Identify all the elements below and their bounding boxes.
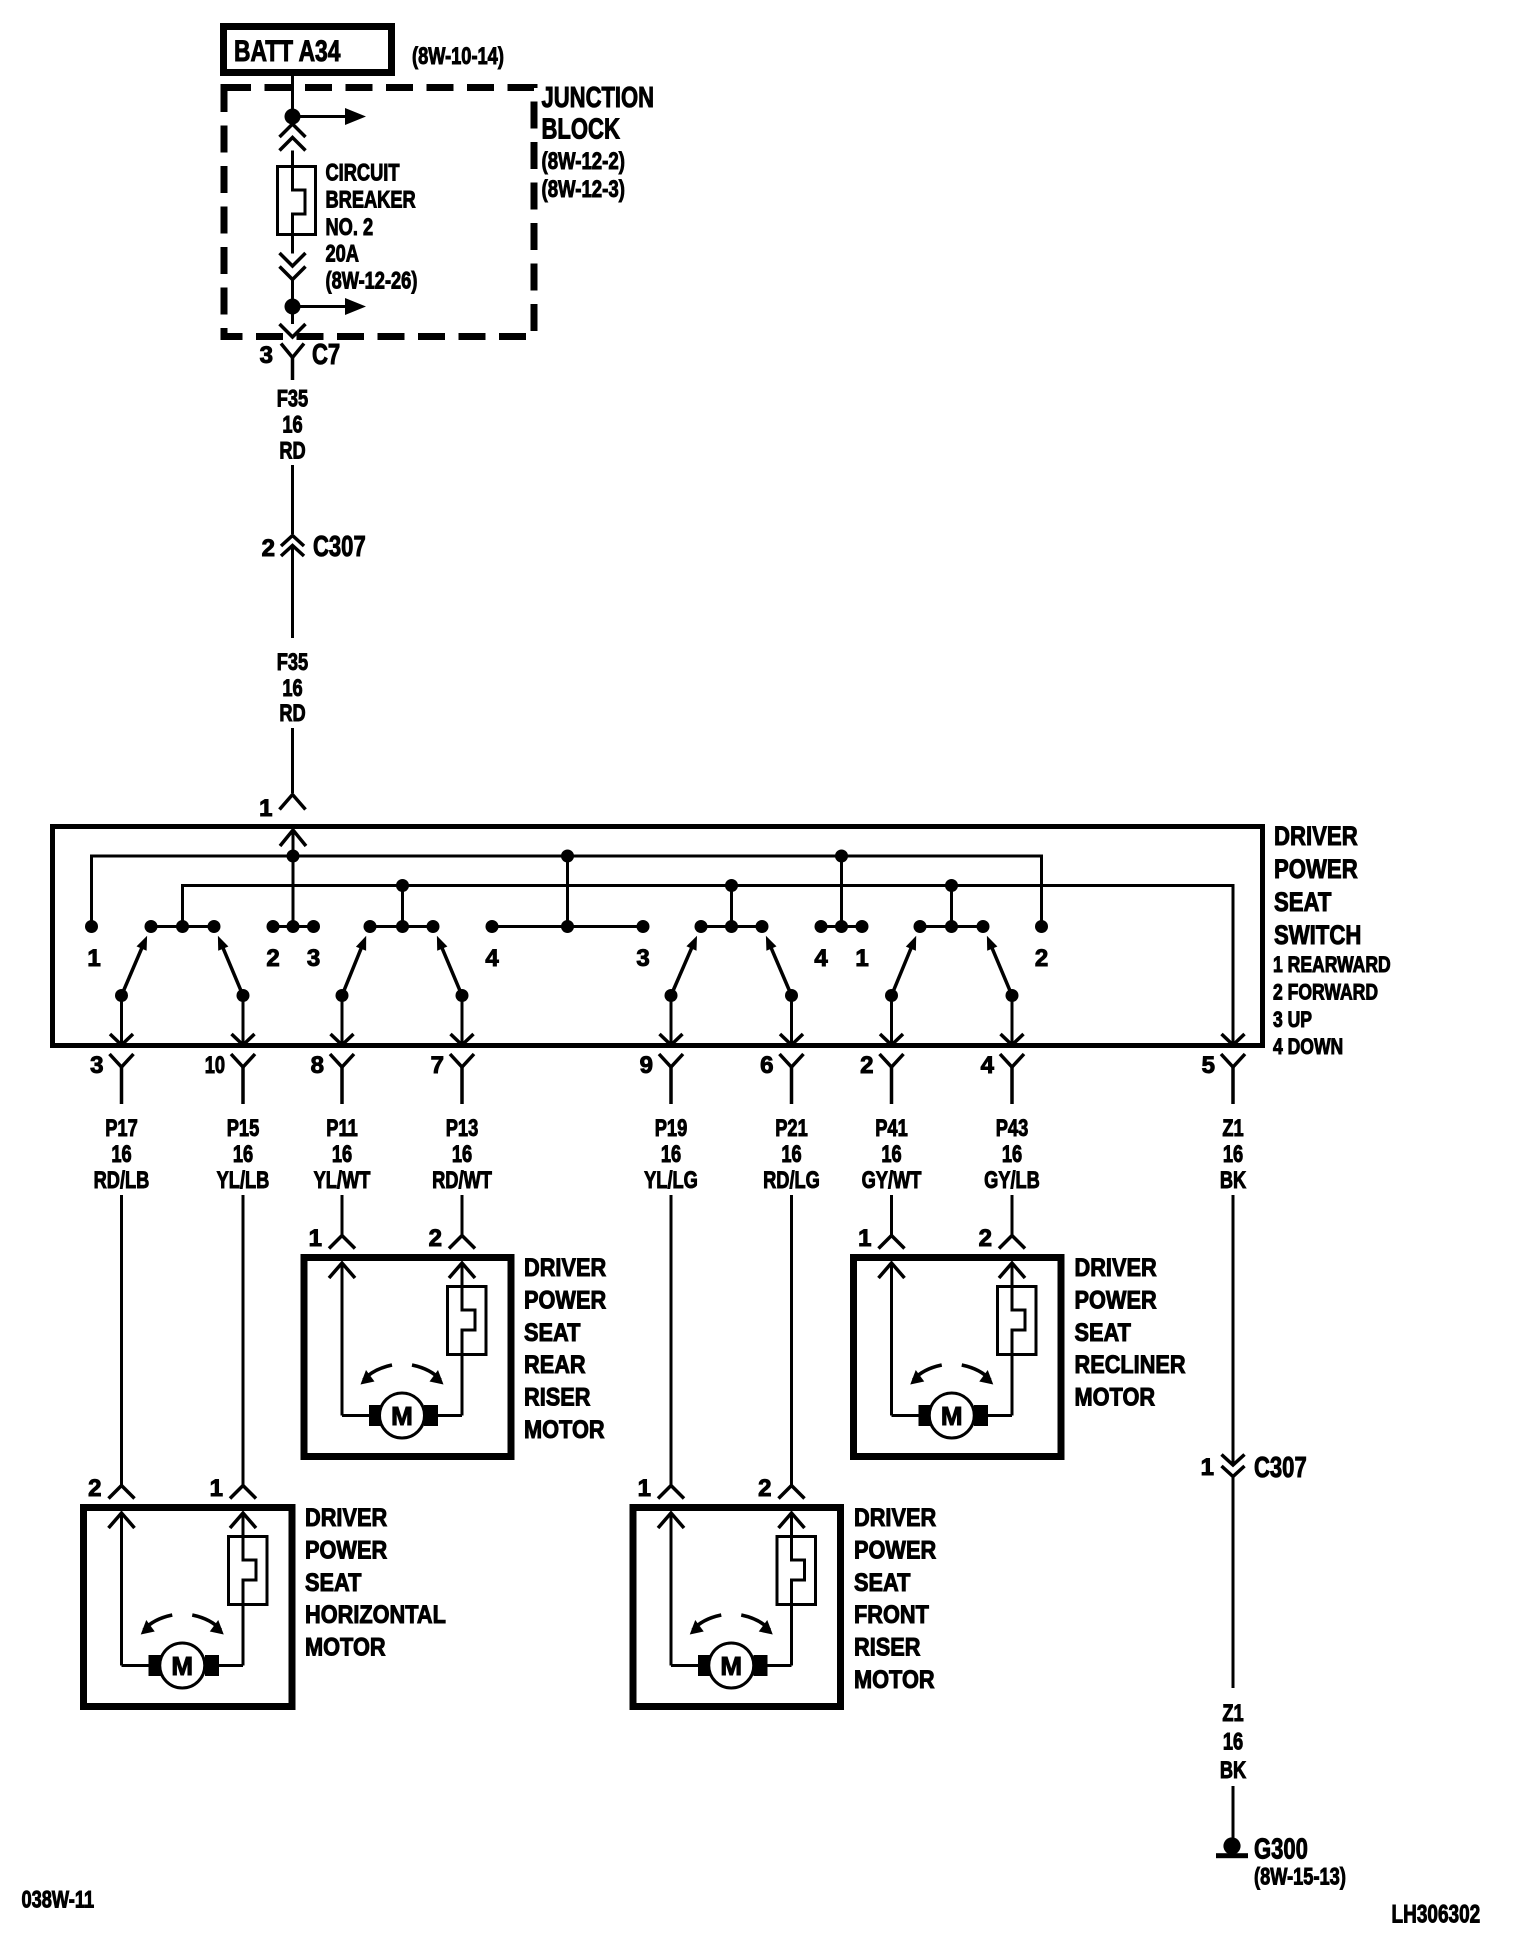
driver power seat front riser motor box: [633, 1508, 841, 1707]
bus common (ground bus to pin 5): [183, 886, 1234, 1047]
label wire P19 16 YL/LG: [644, 1115, 698, 1194]
wire driver power seat front riser motor right leg: [768, 1513, 792, 1666]
svg-text:5: 5: [1202, 1052, 1215, 1079]
label wire P13 16 RD/WT: [432, 1115, 492, 1194]
svg-text:2: 2: [860, 1052, 873, 1079]
svg-text:BREAKER: BREAKER: [326, 187, 416, 214]
switch wafer 2 (rear riser motor, pins 8/7): [331, 886, 474, 1047]
switch wafer 1 (horizontal motor, pins 3/10): [110, 886, 255, 1047]
connector chevrons (breaker output): [280, 253, 306, 280]
wire driver power seat recliner motor right leg: [988, 1263, 1012, 1416]
wire Z1 (lower segment): [1232, 1477, 1235, 1688]
svg-text:1 REARWARD: 1 REARWARD: [1273, 952, 1391, 977]
svg-text:Z1: Z1: [1222, 1700, 1243, 1727]
svg-text:6: 6: [760, 1052, 773, 1079]
svg-text:G300: G300: [1254, 1834, 1308, 1866]
svg-text:2: 2: [88, 1475, 101, 1502]
svg-text:16: 16: [282, 412, 302, 439]
contact position 2 FORWARD (right): [1035, 920, 1048, 972]
motor M2: [919, 1393, 989, 1438]
bus B+ (battery feed bus): [92, 856, 1042, 927]
svg-text:JUNCTION: JUNCTION: [542, 82, 655, 114]
svg-text:GY/LB: GY/LB: [984, 1167, 1040, 1194]
svg-text:1: 1: [87, 945, 100, 972]
driver power seat rear riser motor box: [304, 1258, 511, 1457]
switch wafer 4 (recliner motor, pins 2/4): [880, 886, 1024, 1047]
wire branch arrow (lower feed): [293, 298, 367, 315]
svg-text:1: 1: [210, 1475, 223, 1502]
svg-text:YL/WT: YL/WT: [314, 1167, 371, 1194]
svg-text:C307: C307: [1254, 1452, 1307, 1484]
svg-text:3: 3: [307, 945, 320, 972]
rotation arrows driver power seat front riser motor: [690, 1615, 773, 1635]
connector switch pin 4 (wire P43): [981, 1052, 1024, 1104]
svg-text:M: M: [941, 1401, 963, 1431]
svg-text:1: 1: [858, 1225, 871, 1252]
svg-text:2: 2: [1035, 945, 1048, 972]
svg-text:CIRCUIT: CIRCUIT: [326, 160, 400, 187]
svg-text:16: 16: [111, 1141, 131, 1168]
svg-text:P13: P13: [446, 1115, 479, 1142]
svg-text:MOTOR: MOTOR: [524, 1416, 605, 1444]
svg-text:F35: F35: [277, 649, 308, 676]
connector switch pin 2 (wire P41): [860, 1052, 903, 1104]
node splices on B+ bus: [287, 850, 849, 863]
svg-text:3: 3: [90, 1052, 103, 1079]
svg-text:7: 7: [431, 1052, 444, 1079]
svg-text:(8W-12-2): (8W-12-2): [542, 148, 625, 175]
switch wafer 3 (front riser motor, pins 9/6): [660, 886, 804, 1047]
svg-text:MOTOR: MOTOR: [854, 1666, 935, 1694]
svg-text:(8W-12-3): (8W-12-3): [542, 176, 625, 203]
connector chevrons (junction block feed): [280, 124, 306, 151]
svg-text:2: 2: [266, 945, 279, 972]
svg-text:NO. 2: NO. 2: [326, 214, 374, 241]
svg-text:BK: BK: [1220, 1757, 1247, 1784]
svg-text:16: 16: [1002, 1141, 1022, 1168]
svg-text:3 UP: 3 UP: [1273, 1007, 1312, 1032]
node splice (breaker output): [285, 299, 301, 315]
label wire P15 16 YL/LB: [217, 1115, 270, 1194]
wire P15 run: [242, 1195, 245, 1485]
label driver power seat horizontal motor: [305, 1504, 446, 1662]
svg-text:RD/LG: RD/LG: [763, 1167, 820, 1194]
svg-text:POWER: POWER: [305, 1536, 387, 1564]
rotation arrows driver power seat recliner motor: [910, 1365, 993, 1385]
battery feed box BATT A34: [224, 27, 392, 73]
svg-text:2 FORWARD: 2 FORWARD: [1273, 979, 1378, 1004]
connector switch pin 7 (wire P13): [431, 1052, 474, 1104]
driver power seat recliner motor box: [854, 1258, 1062, 1457]
connector switch pin 6 (wire P21): [760, 1052, 803, 1104]
label wire F35 16 RD (lower): [277, 649, 308, 727]
svg-text:M: M: [720, 1651, 742, 1681]
label wire P17 16 RD/LB: [94, 1115, 150, 1194]
svg-text:YL/LB: YL/LB: [217, 1167, 270, 1194]
svg-text:16: 16: [661, 1141, 681, 1168]
connector C307 pin 2: [262, 531, 366, 563]
svg-text:GY/WT: GY/WT: [862, 1167, 922, 1194]
svg-text:P15: P15: [227, 1115, 260, 1142]
svg-text:1: 1: [1201, 1454, 1214, 1481]
connector switch pin 3 (wire P17): [90, 1052, 133, 1104]
svg-text:SEAT: SEAT: [524, 1319, 580, 1347]
wire Z1 run: [1232, 1195, 1235, 1465]
svg-text:POWER: POWER: [524, 1286, 606, 1314]
label wire P43 16 GY/LB: [984, 1115, 1040, 1194]
connector pin 2 driver power seat rear riser motor: [429, 1225, 475, 1252]
connector switch pin 8 (wire P11): [311, 1052, 354, 1104]
svg-text:P11: P11: [326, 1115, 357, 1142]
thermal breaker driver power seat rear riser motor: [448, 1285, 487, 1355]
label wire Z1 16 BK (lower): [1220, 1700, 1247, 1784]
svg-text:RISER: RISER: [524, 1384, 591, 1412]
connector switch pin 9 (wire P19): [640, 1052, 683, 1104]
svg-text:RISER: RISER: [854, 1634, 921, 1662]
svg-text:3: 3: [260, 342, 273, 369]
label 038W-11: [22, 1887, 95, 1914]
svg-text:REAR: REAR: [524, 1351, 586, 1379]
svg-text:C307: C307: [313, 531, 366, 563]
wire P13 run: [461, 1195, 464, 1235]
svg-text:POWER: POWER: [1274, 854, 1358, 884]
connector pin 1 driver power seat horizontal motor: [210, 1475, 256, 1502]
contacts 4/3 (down/up) pair: [485, 856, 649, 972]
node splice (battery feed): [285, 109, 301, 125]
svg-text:1: 1: [638, 1475, 651, 1502]
svg-text:Z1: Z1: [1222, 1115, 1243, 1142]
svg-text:4: 4: [814, 945, 828, 972]
wire driver power seat horizontal motor right leg: [219, 1513, 243, 1666]
svg-text:SWITCH: SWITCH: [1274, 920, 1361, 950]
connector pin 1 driver power seat rear riser motor: [309, 1225, 355, 1252]
connector pin 2 driver power seat horizontal motor: [88, 1475, 134, 1502]
wire branch arrow (upper feed): [293, 108, 367, 125]
label wire P21 16 RD/LG: [763, 1115, 820, 1194]
connector chevrons inside driver power seat rear riser motor: [329, 1263, 475, 1278]
svg-text:1: 1: [259, 795, 272, 822]
driver power seat switch box: [53, 827, 1263, 1046]
label driver power seat front riser motor: [854, 1504, 936, 1694]
svg-text:SEAT: SEAT: [305, 1569, 361, 1597]
svg-text:FRONT: FRONT: [854, 1601, 929, 1629]
svg-text:2: 2: [758, 1475, 771, 1502]
connector pin 1 (switch feed entry): [259, 795, 305, 823]
svg-text:BK: BK: [1220, 1167, 1247, 1194]
wire F35 (lower segment): [291, 728, 294, 793]
circuit breaker No. 2 20A: [278, 167, 316, 237]
svg-text:16: 16: [332, 1141, 352, 1168]
svg-text:20A: 20A: [326, 241, 360, 268]
svg-text:C7: C7: [312, 339, 340, 371]
wire breaker to chevrons: [291, 236, 294, 254]
svg-text:16: 16: [452, 1141, 472, 1168]
wire to circuit breaker: [291, 151, 294, 168]
label CIRCUIT BREAKER NO. 2 20A (8W-12-26): [326, 160, 418, 295]
contact position 1 REARWARD (left): [85, 920, 101, 972]
svg-text:2: 2: [979, 1225, 992, 1252]
svg-text:M: M: [171, 1651, 193, 1681]
thermal breaker driver power seat front riser motor: [777, 1535, 816, 1605]
node splices on common bus: [396, 879, 958, 892]
wire to connector C7: [291, 307, 294, 325]
thermal breaker driver power seat recliner motor: [998, 1285, 1037, 1355]
contacts 2/3 (forward/up) common triple: [266, 920, 320, 972]
motor M4: [698, 1643, 768, 1688]
wire F35 (middle segment): [291, 546, 294, 638]
wire battery to splice node: [291, 73, 294, 117]
svg-text:RD: RD: [279, 700, 305, 727]
svg-text:(8W-10-14): (8W-10-14): [412, 43, 504, 70]
wire P19 run: [670, 1195, 673, 1485]
thermal breaker driver power seat horizontal motor: [229, 1535, 268, 1605]
label JUNCTION BLOCK (8W-12-2) (8W-12-3): [542, 82, 655, 203]
svg-text:RD: RD: [279, 438, 305, 465]
label driver power seat recliner motor: [1075, 1254, 1186, 1412]
wire P21 run: [790, 1195, 793, 1485]
svg-text:9: 9: [640, 1052, 653, 1079]
svg-text:2: 2: [429, 1225, 442, 1252]
svg-text:DRIVER: DRIVER: [1075, 1254, 1157, 1282]
wire driver power seat recliner motor left leg: [892, 1263, 920, 1416]
svg-text:16: 16: [1223, 1141, 1243, 1168]
svg-text:P41: P41: [875, 1115, 908, 1142]
label wire Z1 16 BK: [1220, 1115, 1247, 1194]
svg-text:MOTOR: MOTOR: [305, 1634, 386, 1662]
label switch positions legend: [1273, 952, 1391, 1059]
rotation arrows driver power seat rear riser motor: [361, 1365, 444, 1385]
connector chevrons inside driver power seat front riser motor: [658, 1513, 805, 1528]
svg-text:1: 1: [855, 945, 868, 972]
wire Z1 to ground: [1232, 1786, 1235, 1839]
connector C307 pin 1: [1201, 1452, 1307, 1484]
svg-text:DRIVER: DRIVER: [524, 1254, 606, 1282]
svg-text:BLOCK: BLOCK: [542, 114, 620, 146]
svg-text:16: 16: [881, 1141, 901, 1168]
svg-text:LH306302: LH306302: [1392, 1901, 1481, 1929]
connector pin 1 driver power seat recliner motor: [858, 1225, 904, 1252]
svg-text:P17: P17: [105, 1115, 138, 1142]
ground G300: [1216, 1834, 1346, 1891]
svg-text:HORIZONTAL: HORIZONTAL: [305, 1601, 446, 1629]
svg-text:4 DOWN: 4 DOWN: [1273, 1034, 1343, 1059]
svg-text:RD/WT: RD/WT: [432, 1167, 492, 1194]
label driver power seat rear riser motor: [524, 1254, 606, 1444]
wire feed to contact 2-3 common: [292, 830, 295, 927]
svg-text:SEAT: SEAT: [1075, 1319, 1131, 1347]
wire F35 (upper segment): [291, 465, 294, 534]
svg-text:16: 16: [1223, 1729, 1243, 1756]
svg-text:4: 4: [485, 945, 499, 972]
svg-text:BATT A34: BATT A34: [234, 35, 341, 68]
wire driver power seat horizontal motor left leg: [122, 1513, 150, 1666]
svg-text:1: 1: [309, 1225, 322, 1252]
svg-text:P19: P19: [655, 1115, 688, 1142]
label DRIVER POWER SEAT SWITCH: [1274, 821, 1361, 950]
junction block (dashed outline): [224, 88, 534, 337]
svg-text:8: 8: [311, 1052, 324, 1079]
svg-text:DRIVER: DRIVER: [1274, 821, 1358, 851]
svg-text:4: 4: [981, 1052, 995, 1079]
connector chevrons inside driver power seat horizontal motor: [109, 1513, 257, 1528]
svg-text:10: 10: [205, 1052, 225, 1079]
connector chevrons inside driver power seat recliner motor: [879, 1263, 1026, 1278]
svg-text:F35: F35: [277, 386, 308, 413]
wire P43 run: [1011, 1195, 1014, 1235]
svg-text:16: 16: [282, 675, 302, 702]
label wire F35 16 RD (upper): [277, 386, 308, 465]
connector C7 pin 3: [260, 324, 341, 380]
motor M3: [149, 1643, 220, 1688]
svg-text:2: 2: [262, 535, 275, 562]
motor M1: [369, 1393, 438, 1438]
label wire P41 16 GY/WT: [862, 1115, 922, 1194]
connector chevron inside switch (feed): [280, 830, 306, 846]
connector switch pin 10 (wire P15): [205, 1052, 255, 1104]
svg-text:(8W-15-13): (8W-15-13): [1254, 1864, 1346, 1891]
label wire P11 16 YL/WT: [314, 1115, 371, 1194]
svg-text:3: 3: [636, 945, 649, 972]
wire driver power seat front riser motor left leg: [671, 1513, 699, 1666]
wire driver power seat rear riser motor left leg: [342, 1263, 370, 1416]
connector pin 1 driver power seat front riser motor: [638, 1475, 684, 1502]
driver power seat horizontal motor box: [84, 1508, 293, 1707]
connector pin 2 driver power seat recliner motor: [979, 1225, 1025, 1252]
label LH306302: [1392, 1901, 1481, 1929]
rotation arrows driver power seat horizontal motor: [141, 1615, 224, 1635]
svg-text:MOTOR: MOTOR: [1075, 1384, 1156, 1412]
svg-text:038W-11: 038W-11: [22, 1887, 95, 1914]
svg-text:16: 16: [781, 1141, 801, 1168]
connector pin 2 driver power seat front riser motor: [758, 1475, 804, 1502]
svg-text:POWER: POWER: [854, 1536, 936, 1564]
wire P11 run: [341, 1195, 344, 1235]
svg-text:P43: P43: [996, 1115, 1029, 1142]
wire driver power seat rear riser motor right leg: [438, 1263, 462, 1416]
svg-text:(8W-12-26): (8W-12-26): [326, 268, 418, 295]
contacts 4/1 (down/rearward) triple: [814, 856, 868, 972]
svg-text:DRIVER: DRIVER: [854, 1504, 936, 1532]
svg-text:M: M: [391, 1401, 413, 1431]
svg-text:YL/LG: YL/LG: [644, 1167, 698, 1194]
connector switch pin 5 (wire Z1): [1202, 1052, 1245, 1104]
svg-text:SEAT: SEAT: [854, 1569, 910, 1597]
wire P17 run: [120, 1195, 123, 1485]
svg-text:POWER: POWER: [1075, 1286, 1157, 1314]
wire P41 run: [890, 1195, 893, 1235]
svg-text:DRIVER: DRIVER: [305, 1504, 387, 1532]
svg-text:P21: P21: [775, 1115, 808, 1142]
label (8W-10-14): [412, 43, 504, 70]
svg-text:SEAT: SEAT: [1274, 887, 1332, 917]
svg-text:16: 16: [233, 1141, 253, 1168]
svg-text:RECLINER: RECLINER: [1075, 1351, 1186, 1379]
svg-text:RD/LB: RD/LB: [94, 1167, 150, 1194]
connector chevron inside switch (pin 5): [1222, 1034, 1245, 1045]
wire to lower splice node: [291, 280, 294, 307]
